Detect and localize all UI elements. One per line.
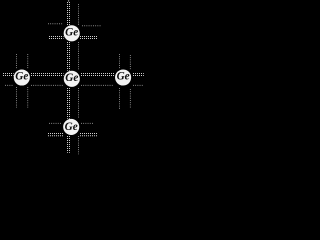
- svg-text:Ge: Ge: [65, 26, 78, 38]
- wire: bottom atom lower pair lower line, right segment: [80, 135, 98, 137]
- svg-text:Ge: Ge: [117, 70, 130, 82]
- wire: vertical pair left line, center-to-bottom run: [67, 88, 69, 119]
- wire: horizontal single line, right-edge run: [133, 84, 144, 86]
- wire: horizontal pair top line, right-edge run: [133, 73, 144, 75]
- wire: bottom atom upper single line, left segment: [49, 122, 62, 124]
- wire: right atom upward stub, left line: [119, 54, 121, 69]
- wire: vertical pair right line, bottom run: [69, 136, 71, 153]
- wire: horizontal pair top line, center-to-right run: [81, 73, 115, 75]
- svg-text:Ge: Ge: [15, 70, 28, 82]
- wire: vertical single line, top run: [78, 4, 80, 26]
- wire: vertical pair right line, top-to-center run: [69, 42, 71, 71]
- germanium covalent-bond lattice diagram: [0, 0, 148, 157]
- wire: right atom downward stub, right line: [129, 89, 131, 108]
- svg-text:Ge: Ge: [65, 121, 78, 133]
- wire: horizontal single line, left-edge run: [5, 84, 13, 86]
- svg-text:Ge: Ge: [65, 72, 78, 84]
- wire: vertical pair right line, center-to-bottom run: [69, 88, 71, 119]
- atom Ge left: [14, 69, 30, 85]
- wire: top atom lower pair lower line, right segment: [80, 38, 98, 40]
- wire: horizontal single line, left-to-center run: [31, 84, 63, 86]
- wire: horizontal pair bottom line, center-to-right run: [81, 75, 115, 77]
- wire: right atom downward stub, left line: [119, 88, 121, 109]
- wire: bottom atom upper single line, right segment: [81, 122, 94, 124]
- atom Ge bottom: [63, 119, 79, 135]
- wire: horizontal single line, center-to-right run: [81, 84, 114, 86]
- wire: vertical single line, bottom run: [78, 136, 80, 154]
- wire: top atom lower pair upper line, left segment: [49, 36, 64, 38]
- wire: horizontal pair top line, left-to-center run: [31, 73, 64, 75]
- wire: left atom downward stub, right line: [27, 87, 29, 108]
- wire: horizontal pair bottom line, left-edge run: [3, 75, 14, 77]
- wire: horizontal pair top line, left-edge run: [3, 73, 14, 75]
- wire: top atom lower pair upper line, right segment: [80, 36, 98, 38]
- wire: bottom atom lower pair lower line, left segment: [48, 135, 63, 137]
- wire: vertical pair right line, top run: [69, 2, 71, 25]
- wire: horizontal pair bottom line, left-to-center run: [31, 75, 64, 77]
- wire: left atom downward stub, left line: [16, 87, 18, 108]
- atom Ge center: [64, 71, 80, 87]
- wire: vertical pair left line, bottom run: [67, 136, 69, 153]
- wire: vertical pair left line, top-to-center run: [67, 42, 69, 71]
- wire: bottom atom lower pair upper line, right segment: [80, 133, 98, 135]
- wire: vertical pair left line, top run: [67, 2, 69, 25]
- wire: top atom lower pair lower line, left segment: [49, 38, 64, 40]
- wire: horizontal pair bottom line, right-edge run: [133, 75, 144, 77]
- atom Ge right: [115, 69, 131, 85]
- wire: vertical single line, center-to-bottom run: [78, 88, 80, 118]
- wire: top atom upper single line, right segment: [82, 25, 101, 27]
- wire: top atom upper single line, left segment: [48, 23, 63, 25]
- wire: vertical single line, top-to-center run: [78, 42, 80, 70]
- atom Ge top: [64, 25, 80, 41]
- wire: left atom upward stub, right line: [27, 54, 29, 69]
- wire: left atom upward stub, left line: [16, 54, 18, 69]
- wire: right atom upward stub, right line: [129, 55, 131, 70]
- node: apex dot above vertical pair: [68, 0, 69, 1]
- wire: bottom atom lower pair upper line, left segment: [48, 133, 63, 135]
